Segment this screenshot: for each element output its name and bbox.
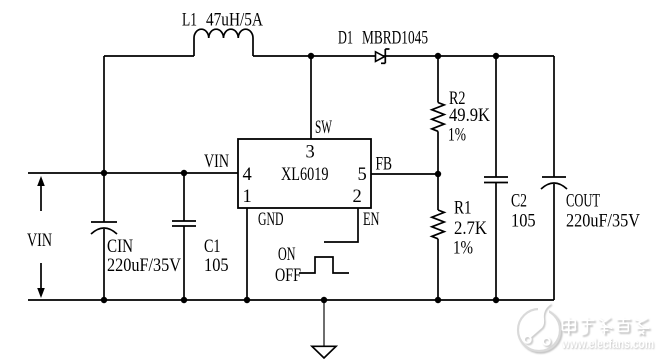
svg-text:C1: C1 [204, 237, 221, 257]
svg-text:CIN: CIN [107, 237, 133, 257]
svg-text:R1: R1 [454, 199, 472, 219]
svg-text:1%: 1% [448, 126, 466, 146]
svg-text:4: 4 [243, 165, 252, 185]
svg-text:220uF/35V: 220uF/35V [107, 256, 182, 276]
svg-text:47uH/5A: 47uH/5A [206, 11, 264, 31]
svg-text:SW: SW [315, 118, 332, 138]
svg-text:2: 2 [353, 187, 362, 207]
svg-text:1%: 1% [453, 239, 473, 259]
svg-text:2.7K: 2.7K [454, 219, 488, 239]
svg-text:C2: C2 [511, 192, 527, 212]
svg-text:1: 1 [243, 187, 252, 207]
svg-text:XL6019: XL6019 [281, 165, 329, 185]
svg-text:220uF/35V: 220uF/35V [566, 212, 641, 232]
svg-text:OFF: OFF [275, 266, 301, 286]
svg-text:COUT: COUT [566, 192, 600, 212]
svg-text:L1: L1 [182, 11, 197, 31]
svg-text:105: 105 [204, 256, 229, 276]
svg-text:3: 3 [306, 143, 315, 163]
svg-text:ON: ON [278, 245, 296, 265]
svg-text:FB: FB [376, 155, 393, 175]
svg-text:www.elecfans.com: www.elecfans.com [561, 337, 654, 351]
svg-text:GND: GND [258, 210, 284, 230]
svg-text:49.9K: 49.9K [449, 106, 491, 126]
svg-text:5: 5 [358, 165, 367, 185]
svg-text:VIN: VIN [27, 231, 52, 251]
svg-text:EN: EN [363, 210, 380, 230]
svg-text:MBRD1045: MBRD1045 [362, 29, 428, 49]
svg-text:D1: D1 [338, 29, 353, 49]
svg-text:VIN: VIN [204, 152, 229, 172]
svg-text:105: 105 [511, 212, 536, 232]
